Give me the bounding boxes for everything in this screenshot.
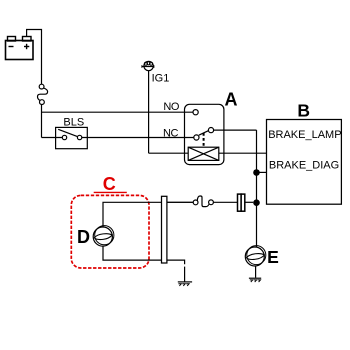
switch BLS — [56, 127, 88, 148]
ground (lamp D circuit) — [178, 282, 192, 286]
wire BLS to relay NC — [82, 137, 194, 139]
svg-text:A: A — [225, 90, 238, 110]
svg-text:BRAKE_LAMP: BRAKE_LAMP — [268, 129, 341, 141]
svg-text:IG1: IG1 — [152, 73, 170, 85]
wire node to BLS — [42, 137, 63, 139]
wire coil to box B (BRAKE_LAMP) — [219, 152, 267, 154]
IG1 power symbol — [142, 61, 154, 70]
connector long bar — [162, 196, 167, 263]
wire vertical bus — [256, 130, 258, 247]
wire ground drop lower — [184, 267, 186, 282]
wire long bar to squiggle — [167, 201, 193, 203]
wire lamp E to ground — [255, 266, 257, 278]
svg-text:D: D — [77, 227, 90, 247]
lamp D — [93, 226, 114, 247]
wire squiggle to split connector — [213, 201, 237, 203]
ground (lamp E) — [249, 278, 261, 282]
shield box C (red dashed) — [71, 195, 149, 268]
svg-text:NC: NC — [163, 128, 178, 140]
box B — [267, 120, 342, 205]
wire relay COM to vertical bus — [214, 129, 257, 131]
wire IG1 down to coil — [148, 71, 150, 154]
svg-text:B: B — [297, 101, 310, 121]
junction dot BRAKE_DIAG — [253, 169, 260, 176]
relay pin COM — [208, 128, 213, 133]
wire split connector to junction — [245, 201, 253, 203]
wire node to relay NO — [42, 111, 194, 113]
svg-text:C: C — [103, 174, 116, 194]
wire stub to BRAKE_DIAG — [257, 171, 267, 173]
lamp E — [245, 246, 265, 266]
connector split-block — [238, 194, 245, 211]
relay coil — [188, 147, 219, 160]
svg-text:E: E — [267, 247, 279, 267]
relay pin NC — [194, 135, 199, 140]
relay armature lever — [199, 131, 209, 136]
wire battery+ to splice — [27, 30, 42, 85]
svg-text:BRAKE_DIAG: BRAKE_DIAG — [269, 159, 339, 171]
relay pin NO — [193, 110, 198, 115]
wire splice down to node — [41, 104, 43, 137]
connector squiggle in lamp feed — [193, 196, 213, 207]
relay linkage (dashed) — [203, 133, 205, 147]
wire coil left — [149, 152, 189, 154]
wire lamp D loop top — [103, 202, 193, 227]
relay A box — [185, 104, 224, 164]
junction dot lamp feed — [253, 199, 260, 206]
connector splice on battery feed — [38, 84, 48, 104]
wire lamp D loop bottom — [103, 246, 185, 264]
battery — [6, 37, 34, 60]
svg-text:NO: NO — [163, 101, 179, 113]
